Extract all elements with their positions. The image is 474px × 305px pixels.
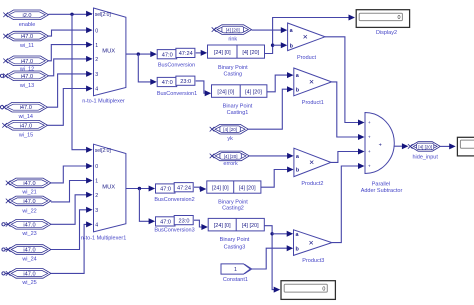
wire Product2 to adder in3 <box>331 149 365 163</box>
svg-text:i47.0: i47.0 <box>23 248 35 254</box>
mux U2 n-to-1 Multiplexer1 <box>81 144 127 241</box>
wire Casting3 out to Display <box>264 226 280 293</box>
wire MUX1 out to BusConversion3 <box>139 189 155 225</box>
svg-text:errork: errork <box>223 161 238 167</box>
svg-text:Display2: Display2 <box>376 30 397 36</box>
gateway wi_22 (i47.0) <box>6 196 51 214</box>
gateway wi_21 (i47.0) <box>6 178 51 196</box>
wire Casting net to Product b <box>273 42 288 48</box>
gateway errork [4] [20] <box>210 151 250 167</box>
svg-text:BusConversion2: BusConversion2 <box>154 197 194 203</box>
wire BusConversion3 to Casting3 <box>194 220 208 230</box>
svg-text:wi_24: wi_24 <box>21 256 36 262</box>
svg-text:i47.0: i47.0 <box>20 105 32 111</box>
svg-text:wi_11: wi_11 <box>19 43 34 49</box>
svg-text:i47.0: i47.0 <box>21 34 33 40</box>
svg-text:wi_21: wi_21 <box>21 190 36 196</box>
svg-text:×: × <box>309 157 314 167</box>
svg-text:2: 2 <box>95 57 98 63</box>
svg-text:n-to-1 Multiplexer: n-to-1 Multiplexer <box>82 99 125 105</box>
svg-text:Binary Point: Binary Point <box>223 103 253 109</box>
wire wi_12 to MUX in1 <box>49 42 93 61</box>
wire wi_23 to MUX1 in2 <box>51 192 93 225</box>
svg-text:1: 1 <box>234 267 237 273</box>
wire wi_11 to MUX in0 <box>49 27 93 36</box>
unconnected port wi_14 <box>0 106 3 109</box>
svg-text:0: 0 <box>95 28 98 34</box>
svg-text:MUX: MUX <box>102 184 115 190</box>
svg-text:Product1: Product1 <box>302 100 324 106</box>
junction enable net <box>70 13 73 16</box>
svg-text:i47.0: i47.0 <box>23 181 35 187</box>
wire MUX out to BusConversion1 <box>138 54 157 85</box>
svg-text:×: × <box>309 237 314 247</box>
gateway wi_13 (i47.0) <box>3 71 48 89</box>
svg-text:[24] [0]: [24] [0] <box>217 89 234 95</box>
svg-text:[24] [0]: [24] [0] <box>214 50 231 56</box>
svg-text:23:0: 23:0 <box>180 79 191 85</box>
gateway rink [4] [20] <box>212 25 252 43</box>
gateway wi_24 (i47.0) <box>6 245 51 263</box>
svg-text:47:0: 47:0 <box>162 52 173 58</box>
unconnected port wi_25 <box>2 272 8 275</box>
gateway wi_23 (i47.0) <box>6 220 51 238</box>
svg-text:Adder Subtractor: Adder Subtractor <box>361 188 403 194</box>
svg-text:3: 3 <box>95 208 98 214</box>
mux U1 n-to-1 Multiplexer <box>82 8 126 105</box>
svg-text:Casting: Casting <box>223 72 242 78</box>
Binary Point Casting1 <box>212 85 267 116</box>
svg-text:hide_input: hide_input <box>413 154 439 160</box>
wire Product to adder in1 <box>325 37 365 126</box>
svg-text:rink: rink <box>228 37 237 43</box>
svg-text:×: × <box>309 77 314 87</box>
svg-text:enable: enable <box>19 22 36 28</box>
svg-text:BusConversion: BusConversion <box>158 62 195 68</box>
wire wi_13 to MUX in2 <box>49 56 93 76</box>
svg-text:Product2: Product2 <box>301 181 323 187</box>
svg-text:BusConversion3: BusConversion3 <box>154 228 194 234</box>
unconnected port wi_23 <box>2 223 8 226</box>
svg-text:2: 2 <box>95 193 98 199</box>
gateway wi_12 (i47.0) <box>3 56 48 72</box>
svg-text:[24] [0]: [24] [0] <box>214 223 231 229</box>
svg-text:[4] [20]: [4] [20] <box>245 89 262 95</box>
adder U3 Parallel Adder Subtractor <box>361 113 403 195</box>
svg-text:[4] [20]: [4] [20] <box>239 185 256 191</box>
svg-text:i2.0: i2.0 <box>22 13 31 19</box>
display Display1 (cut at right edge) <box>457 137 474 156</box>
constant C1 Constant1 <box>221 264 252 283</box>
svg-text:×: × <box>303 32 308 42</box>
svg-text:Product: Product <box>297 55 316 61</box>
svg-text:+: + <box>368 121 371 126</box>
wire wi_14 to MUX in3 <box>48 71 93 107</box>
svg-text:[4] [20]: [4] [20] <box>242 223 259 229</box>
wire rink to Product a <box>252 27 288 33</box>
wire Product3 to adder in4 <box>332 163 365 243</box>
svg-text:wi_14: wi_14 <box>18 114 33 120</box>
wire Casting2 to Product2 b <box>261 167 294 188</box>
wire MUX1 out to BusConversion2 <box>126 186 155 192</box>
display Display2 <box>356 10 409 36</box>
gateway yk [4] [20] <box>210 124 249 142</box>
svg-text:0: 0 <box>398 15 401 21</box>
svg-text:[24] [0]: [24] [0] <box>212 185 229 191</box>
wire BusConversion2 to Casting2 <box>194 186 206 192</box>
gateway wi_11 (i47.0) <box>3 31 48 49</box>
wire adder to hide_input <box>394 143 409 149</box>
wire enable to MUX sel <box>49 11 93 17</box>
wire wi_15 to MUX in4 <box>48 86 93 126</box>
svg-text:MUX: MUX <box>102 49 115 55</box>
gateway hide_input [4] [20] <box>408 142 440 161</box>
wire wi_25 to MUX1 in4 <box>51 221 93 273</box>
BusConversion3 <box>154 216 194 234</box>
svg-text:47:0: 47:0 <box>160 187 171 193</box>
gateway wi_14 (i47.0) <box>2 102 48 120</box>
wire Casting out to Display2 <box>265 15 356 54</box>
BusConversion <box>157 48 195 68</box>
wire Constant1 to Product3 b <box>252 245 293 269</box>
svg-text:BusConversion1: BusConversion1 <box>157 91 197 97</box>
gateway wi_25 (i47.0) <box>6 269 51 286</box>
svg-text:wi_22: wi_22 <box>21 208 36 214</box>
svg-text:1: 1 <box>95 43 98 49</box>
Product1 <box>294 68 332 106</box>
wire wi_24 to MUX1 in3 <box>51 207 93 250</box>
svg-text:wi_23: wi_23 <box>21 231 36 237</box>
svg-text:47:0: 47:0 <box>162 80 173 86</box>
svg-text:47:24: 47:24 <box>179 51 193 57</box>
svg-text:Casting3: Casting3 <box>224 244 246 250</box>
svg-text:Product3: Product3 <box>302 258 324 264</box>
wire hide_input to Display1 <box>440 143 455 149</box>
wire wi_22 to MUX1 in1 <box>51 178 93 202</box>
Binary Point Casting3 <box>208 218 264 250</box>
unconnected port wi_13 <box>0 74 3 77</box>
display Display (bottom) <box>281 281 335 300</box>
wire errork to Product2 a <box>249 153 293 159</box>
Product3 <box>294 230 332 264</box>
svg-text:[4] [20]: [4] [20] <box>226 28 240 33</box>
wire wi_21 to MUX1 in0 <box>51 163 93 183</box>
svg-text:[4] [20]: [4] [20] <box>418 144 432 149</box>
junction Casting3 net <box>270 232 273 235</box>
svg-text:Binary Point: Binary Point <box>218 65 248 71</box>
svg-text:Casting1: Casting1 <box>227 110 249 116</box>
wire Casting1 to Product1 a <box>267 72 294 92</box>
svg-text:n-to-1 Multiplexer1: n-to-1 Multiplexer1 <box>81 235 127 241</box>
BusConversion1 <box>157 76 197 97</box>
Product2 <box>294 148 331 187</box>
svg-text:Parallel: Parallel <box>372 182 390 188</box>
svg-text:+: + <box>368 150 371 155</box>
svg-text:sel[2:0]: sel[2:0] <box>95 12 112 18</box>
wire enable to MUX1 sel down-run <box>72 14 93 152</box>
svg-text:[4] [20]: [4] [20] <box>242 50 259 56</box>
svg-text:i47.0: i47.0 <box>21 74 33 80</box>
svg-text:i47.0: i47.0 <box>21 59 33 65</box>
wire yk to Product1 b <box>248 86 293 129</box>
gateway wi_15 (i47.0) <box>2 121 47 139</box>
svg-text:Casting2: Casting2 <box>222 206 244 212</box>
svg-text:wi_15: wi_15 <box>18 132 33 138</box>
svg-text:47:0: 47:0 <box>160 220 171 226</box>
unconnected port wi_24 <box>2 248 8 251</box>
svg-text:3: 3 <box>95 72 98 78</box>
wire BusConversion to Casting <box>196 50 208 56</box>
svg-text:yk: yk <box>227 136 233 142</box>
svg-text:i47.0: i47.0 <box>20 123 32 129</box>
svg-text:i47.0: i47.0 <box>23 222 35 228</box>
wire Product1 to adder in2 <box>332 82 365 140</box>
wire BusConversion1 to Casting1 <box>196 81 212 96</box>
wire Casting3 net to Product3 a <box>272 231 293 237</box>
svg-text:4: 4 <box>95 223 98 229</box>
svg-text:[4] [20]: [4] [20] <box>223 127 237 132</box>
svg-text:0: 0 <box>322 287 325 293</box>
svg-text:i47.0: i47.0 <box>23 271 35 277</box>
Binary Point Casting2 <box>207 181 261 212</box>
svg-text:23:0: 23:0 <box>179 218 190 224</box>
svg-text:47:24: 47:24 <box>177 185 191 191</box>
svg-text:[4] [20]: [4] [20] <box>224 154 238 159</box>
svg-text:+: + <box>379 142 382 148</box>
junction MUX1 out <box>138 187 141 190</box>
svg-text:wi_25: wi_25 <box>21 280 36 286</box>
svg-text:1: 1 <box>95 179 98 185</box>
Binary Point Casting <box>208 45 265 78</box>
svg-text:Constant1: Constant1 <box>223 277 248 283</box>
junction MUX out <box>137 52 140 55</box>
svg-text:0: 0 <box>95 164 98 170</box>
svg-text:+: + <box>368 136 371 141</box>
gateway enable (i2.0) <box>3 10 48 28</box>
wire MUX out to BusConversion <box>126 51 157 57</box>
svg-text:+: + <box>368 165 371 170</box>
svg-text:Binary Point: Binary Point <box>218 200 248 206</box>
BusConversion2 <box>154 183 194 203</box>
Product <box>288 23 325 61</box>
svg-text:wi_13: wi_13 <box>19 83 34 89</box>
svg-text:4: 4 <box>95 87 98 93</box>
svg-text:sel[2:0]: sel[2:0] <box>95 148 112 154</box>
svg-text:Binary Point: Binary Point <box>220 237 250 243</box>
svg-text:i47.0: i47.0 <box>23 199 35 205</box>
junction Casting net <box>271 44 274 47</box>
